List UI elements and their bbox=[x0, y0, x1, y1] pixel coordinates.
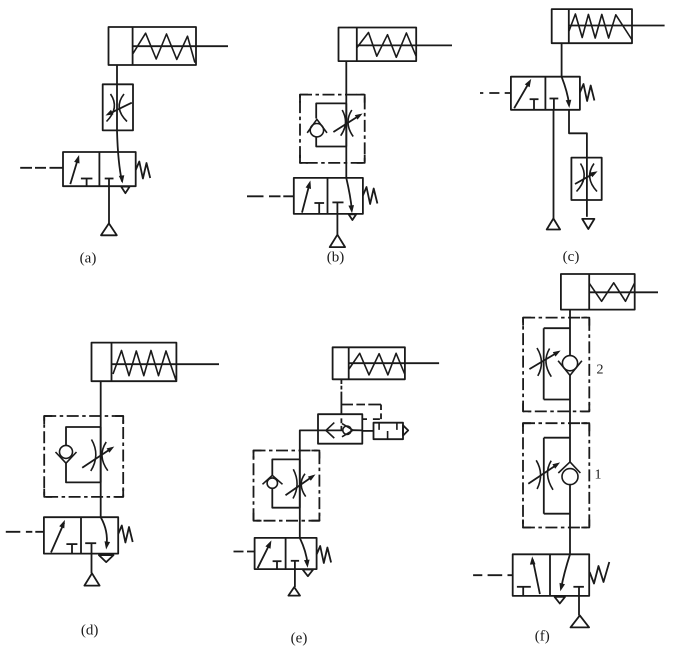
valve V-A body bbox=[63, 152, 136, 186]
valve V-D center division bbox=[80, 517, 82, 553]
quick exhaust valve QE seat bbox=[342, 424, 353, 437]
cylinder E piston bbox=[348, 347, 350, 379]
valve V-C pilot line bbox=[480, 92, 511, 94]
cylinder D piston bbox=[111, 343, 113, 382]
valve V-F right blocked supply port bbox=[573, 586, 584, 588]
main line f to valve bbox=[569, 485, 571, 555]
cylinder B rod bbox=[357, 44, 452, 46]
quick exhaust valve QE internal pilot (dashed) bbox=[340, 418, 342, 430]
throttle D restriction arcs bbox=[91, 440, 108, 472]
throttle E adjustment arrow bbox=[286, 476, 314, 495]
flow control FC-D enclosure (chain line) bbox=[44, 416, 123, 497]
wire cylinder C to valve C bbox=[561, 43, 563, 76]
cylinder F rod bbox=[589, 291, 658, 293]
cylinder A piston bbox=[132, 27, 134, 65]
quick exhaust valve QE body bbox=[318, 414, 362, 444]
wire cylinder E to quick exhaust valve bbox=[340, 379, 342, 414]
cylinder B return spring bbox=[357, 33, 416, 58]
throttle valve C flow line bbox=[586, 158, 588, 200]
circuit (d) bbox=[6, 343, 219, 639]
main line f cylinder to check valve 2 bbox=[569, 310, 571, 356]
check valve 1 ball bbox=[562, 469, 578, 485]
cylinder C piston bbox=[568, 9, 570, 43]
check valve B ball bbox=[310, 124, 323, 137]
cylinder C rod bbox=[569, 25, 665, 27]
cylinder A return spring bbox=[133, 33, 195, 62]
flow control FC-1 inner box bbox=[544, 438, 570, 514]
main line f between flow controls bbox=[569, 375, 571, 462]
circuit (b) bbox=[247, 28, 452, 266]
valve V-E left position flow arrow bbox=[258, 543, 271, 568]
valve V-F pilot line bbox=[473, 574, 512, 576]
exhaust line c below throttle bbox=[586, 200, 588, 217]
check valve 1 seat bbox=[558, 462, 580, 473]
valve V-C return spring bbox=[580, 84, 595, 101]
quick exhaust valve QE line to exhaust port bbox=[353, 429, 362, 431]
cylinder F return spring bbox=[589, 283, 634, 302]
svg-text:(b): (b) bbox=[327, 250, 345, 266]
check valve 2 seat bbox=[558, 361, 582, 376]
main line d cylinder to valve bbox=[100, 381, 102, 517]
cylinder A rod bbox=[133, 45, 228, 47]
cylinder E return spring bbox=[349, 353, 405, 375]
air supply source triangle d bbox=[84, 573, 99, 585]
valve V-B body bbox=[294, 178, 363, 214]
valve V-A left blocked port bbox=[81, 178, 93, 180]
valve V-A flow path to exhaust bbox=[117, 130, 122, 181]
valve V-B right blocked supply port bbox=[332, 201, 343, 203]
valve V-A exhaust triangle bbox=[121, 187, 129, 194]
valve V-A center division bbox=[98, 152, 100, 186]
flow control FC-D inner box bbox=[66, 427, 101, 482]
flow control FC-B inner box bbox=[316, 103, 346, 146]
cylinder B piston bbox=[356, 28, 358, 62]
valve V-B return spring bbox=[363, 187, 378, 204]
throttle valve C body bbox=[571, 158, 601, 200]
svg-text:(f): (f) bbox=[535, 629, 550, 645]
valve V-E center division bbox=[285, 538, 287, 569]
throttle 1 restriction arcs bbox=[536, 460, 553, 490]
svg-text:(e): (e) bbox=[291, 630, 308, 646]
cylinder F body bbox=[561, 274, 635, 310]
air supply source triangle c bbox=[547, 219, 560, 230]
silencer outlet triangle bbox=[403, 425, 408, 435]
throttle valve C adjustment arrow bbox=[575, 173, 595, 184]
valve V-B pilot line bbox=[247, 195, 294, 197]
valve V-D left blocked port bbox=[66, 543, 77, 545]
check valve D ball bbox=[60, 445, 73, 458]
flow control FC-2 enclosure (chain line) bbox=[523, 318, 589, 412]
exhaust triangle c bbox=[582, 219, 594, 229]
throttle valve A restriction arcs bbox=[107, 94, 128, 122]
throttle valve A body bbox=[103, 84, 133, 130]
valve V-A return spring bbox=[136, 162, 151, 179]
valve V-C center division bbox=[544, 77, 546, 110]
svg-text:1: 1 bbox=[595, 467, 602, 482]
throttle 2 adjustment arrow bbox=[529, 352, 558, 369]
valve V-A right blocked supply port bbox=[105, 178, 114, 180]
check valve E ball bbox=[267, 478, 277, 488]
valve V-F left blocked port bbox=[517, 586, 531, 588]
air supply source triangle f bbox=[571, 615, 590, 627]
valve V-D exhaust triangle bbox=[99, 555, 114, 562]
valve V-D body bbox=[44, 517, 118, 553]
circuit (a) bbox=[20, 27, 228, 267]
cylinder E rod bbox=[349, 362, 439, 364]
valve V-A left position flow arrow bbox=[70, 158, 78, 184]
quick exhaust valve QE flow line bbox=[318, 429, 343, 431]
cylinder A body bbox=[109, 27, 197, 65]
wire QE to flow control e bbox=[300, 430, 318, 450]
throttle valve A adjustment arrow bbox=[108, 103, 132, 115]
valve V-F flow path to exhaust bbox=[561, 554, 570, 588]
cylinder D return spring bbox=[113, 351, 176, 381]
check valve 2 ball bbox=[562, 356, 577, 371]
valve V-F body bbox=[513, 554, 590, 596]
throttle 2 restriction arcs bbox=[537, 348, 551, 377]
svg-text:(a): (a) bbox=[80, 251, 97, 267]
valve V-F center division bbox=[549, 554, 551, 596]
valve V-E body bbox=[255, 538, 317, 569]
cylinder D rod bbox=[112, 363, 220, 365]
throttle 1 adjustment arrow bbox=[528, 464, 557, 484]
cylinder B body bbox=[339, 28, 417, 62]
wire QE to silencer bbox=[362, 430, 373, 432]
throttle B restriction arcs bbox=[341, 110, 354, 137]
valve V-B flow path to exhaust bbox=[346, 178, 352, 209]
circuit (c) bbox=[480, 9, 665, 265]
valve V-D right blocked supply port bbox=[85, 542, 96, 544]
quick exhaust valve QE left check chevron bbox=[326, 423, 334, 439]
valve V-A pilot line bbox=[20, 167, 63, 169]
circuit (f) bbox=[473, 274, 658, 645]
cylinder D body bbox=[92, 343, 177, 382]
flow control FC-1 enclosure (chain line) bbox=[523, 423, 589, 527]
exhaust pipe c bbox=[569, 110, 587, 158]
throttle E restriction arcs bbox=[293, 469, 306, 498]
flow control FC-2 inner box bbox=[544, 328, 570, 399]
valve V-E right blocked supply port bbox=[291, 560, 299, 562]
throttle valve A flow line bbox=[116, 84, 118, 130]
valve V-B exhaust triangle bbox=[349, 214, 357, 220]
cylinder E body bbox=[333, 347, 405, 379]
flow control FC-E enclosure (chain line) bbox=[254, 451, 320, 521]
check valve D seat bbox=[56, 452, 77, 463]
main line b cylinder to valve bbox=[345, 61, 347, 178]
valve V-C flow path to exhaust bbox=[562, 77, 570, 105]
flow control FC-E inner box bbox=[272, 459, 300, 507]
supply line e bbox=[294, 569, 296, 587]
cylinder C return spring bbox=[569, 14, 632, 40]
cylinder F piston bbox=[588, 274, 590, 310]
valve V-F left position flow arrow bbox=[533, 560, 540, 595]
valve V-C right blocked supply port bbox=[550, 98, 559, 100]
valve V-D pilot line bbox=[6, 531, 44, 533]
throttle B adjustment arrow bbox=[333, 115, 359, 132]
svg-text:2: 2 bbox=[597, 363, 604, 378]
supply line f bbox=[578, 596, 580, 616]
wire cylinder A to throttle A bbox=[116, 65, 118, 84]
supply line a bbox=[108, 186, 110, 223]
cylinder C body bbox=[552, 9, 632, 43]
valve V-D flow path to exhaust bbox=[101, 517, 107, 546]
valve V-E return spring bbox=[317, 546, 332, 563]
valve V-F return spring bbox=[590, 562, 610, 584]
valve V-D left position flow arrow bbox=[51, 523, 64, 553]
supply line b bbox=[336, 214, 338, 235]
quick exhaust valve QE ball bbox=[343, 426, 351, 434]
valve V-B left position flow arrow bbox=[302, 184, 310, 213]
external pilot line e (dashed) bbox=[341, 404, 381, 406]
valve V-C body bbox=[511, 77, 580, 110]
flow control FC-B enclosure (chain line) bbox=[300, 95, 365, 163]
main line e to valve bbox=[299, 451, 301, 538]
supply line c bbox=[553, 110, 555, 219]
throttle valve C restriction arcs bbox=[577, 164, 598, 192]
silencer body bbox=[374, 423, 404, 440]
svg-text:(d): (d) bbox=[81, 623, 99, 639]
svg-text:(c): (c) bbox=[563, 249, 580, 265]
valve V-F exhaust triangle bbox=[555, 597, 565, 604]
valve V-B left blocked port bbox=[314, 202, 324, 204]
valve V-E left blocked port bbox=[273, 560, 282, 562]
silencer internal lines bbox=[379, 423, 397, 440]
check valve E seat bbox=[263, 475, 283, 484]
valve V-C left blocked port bbox=[530, 98, 539, 100]
circuit (e) bbox=[234, 347, 440, 646]
valve V-E pilot line bbox=[234, 551, 255, 553]
valve V-E flow path to exhaust bbox=[300, 538, 308, 564]
supply line d bbox=[91, 554, 93, 574]
air supply source triangle b bbox=[330, 235, 345, 247]
valve V-E exhaust triangle bbox=[303, 570, 314, 577]
throttle D adjustment arrow bbox=[82, 448, 111, 468]
check valve B seat bbox=[307, 119, 327, 133]
air supply source triangle a bbox=[101, 223, 117, 235]
air supply source triangle e bbox=[288, 587, 300, 596]
valve V-C left position flow arrow bbox=[514, 82, 530, 109]
valve V-D return spring bbox=[118, 526, 133, 543]
valve V-B center division bbox=[327, 178, 329, 214]
